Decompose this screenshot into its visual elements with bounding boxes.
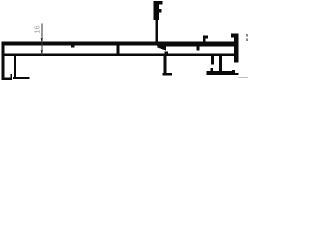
- screw channel foot: [207, 71, 233, 75]
- right edge tick upper: [246, 34, 248, 36]
- stub under right top wall: [196, 46, 199, 50]
- left foot uptick: [10, 74, 12, 80]
- left foot horizontal: [2, 77, 13, 80]
- vertical blade thick upper part: [154, 1, 159, 20]
- right foot bottom: [232, 73, 238, 75]
- mid snap hook nub: [205, 36, 208, 39]
- blade top nub: [159, 1, 163, 4]
- mid snap hook riser: [203, 36, 206, 43]
- dimension extension line 16: [41, 24, 42, 56]
- inner web: [116, 46, 119, 54]
- left T-stem: [14, 56, 16, 79]
- screw channel upper stub: [211, 56, 214, 64]
- faint baseline bottom right: [238, 77, 248, 78]
- left end cap and leg: [1, 41, 4, 79]
- right edge tick lower: [246, 39, 248, 41]
- svg-text:16: 16: [32, 25, 41, 33]
- inner rib under top wall: [71, 46, 74, 48]
- middle bottom foot: [163, 73, 172, 76]
- blade middle nub: [159, 9, 162, 12]
- profile bottom wall: [2, 54, 238, 57]
- middle bottom stem: [163, 56, 166, 75]
- right foot vertical: [232, 70, 235, 75]
- screw channel left foot top stub: [211, 68, 213, 71]
- screw channel main stem: [219, 56, 222, 71]
- nub on bottom wall inside cavity: [164, 51, 168, 54]
- dimension arrow at bottom wall: [41, 50, 44, 53]
- right end bar left nub: [231, 34, 234, 38]
- profile top wall right section: [157, 41, 239, 46]
- dimension arrow at top wall: [41, 38, 44, 41]
- right end bar: [234, 34, 239, 63]
- left T-foot flange: [13, 77, 29, 79]
- vertical blade thin part: [156, 20, 159, 42]
- profile top wall left section: [2, 42, 157, 46]
- junction arrow pointing left: [157, 44, 166, 51]
